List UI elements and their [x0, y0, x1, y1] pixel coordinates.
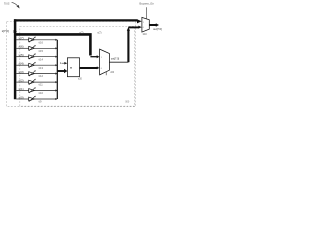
up arrowhead [127, 27, 130, 31]
wire: mux U2 output [109, 61, 128, 63]
wire: collecting vertical bus [56, 40, 58, 99]
wire [34, 47, 55, 49]
delay buffer D3 [29, 72, 35, 76]
svg-text:x(7): x(7) [79, 31, 83, 34]
svg-text:x(1): x(1) [19, 87, 24, 91]
svg-text:out[7:0]: out[7:0] [153, 27, 162, 31]
delay row 4 : x(4) [16, 62, 57, 70]
wire [34, 73, 55, 75]
arrowhead into bypass mux input 1 [137, 19, 142, 23]
svg-text:x(7): x(7) [19, 36, 24, 40]
delay buffer D7 [29, 38, 35, 42]
delay buffer D2 [29, 80, 35, 84]
delay row 6 : x(2) [16, 78, 57, 86]
bypass mux U3 [142, 17, 149, 32]
svg-text:x(3): x(3) [19, 70, 24, 74]
wire: riser to bypass mux [127, 30, 129, 63]
wire [16, 56, 29, 58]
svg-text:t/11: t/11 [39, 83, 44, 87]
wire [62, 62, 65, 64]
outer dashed box [7, 21, 136, 106]
mux U2 [100, 49, 110, 75]
delay row 3 : x(5) [16, 53, 57, 61]
wire: final output [149, 24, 156, 26]
wire: thick arrow into register U1 [57, 70, 64, 72]
svg-text:x(0): x(0) [19, 95, 24, 99]
wire: horizontal undelayed bus [15, 34, 90, 55]
svg-text:x[7:0]: x[7:0] [2, 29, 9, 33]
svg-text:out[7:0]: out[7:0] [111, 57, 120, 60]
svg-text:x(2): x(2) [19, 78, 24, 82]
svg-text:t/13: t/13 [39, 66, 44, 70]
arrowhead entering delay block [14, 30, 17, 33]
delay buffer D6 [29, 46, 35, 50]
wire [34, 39, 55, 41]
delay row 8 : x(0) [16, 95, 57, 103]
delay row 2 : x(6) [16, 45, 57, 53]
wire [34, 64, 55, 66]
delay buffer D5 [29, 55, 35, 59]
svg-text:t/12: t/12 [39, 74, 44, 78]
wire: U1 output [80, 67, 98, 69]
mux U2 select stub [105, 72, 107, 75]
wire [16, 47, 29, 49]
svg-text:t/15: t/15 [39, 49, 44, 53]
wire [34, 98, 55, 100]
wire: top bypass bus [14, 19, 137, 21]
svg-text:t/10: t/10 [39, 91, 44, 95]
wire: delayed output into bypass mux [128, 26, 138, 28]
wire [16, 39, 29, 41]
svg-text:x20: x20 [78, 77, 83, 80]
svg-text:bus: bus [4, 1, 10, 5]
svg-text:t/16: t/16 [39, 40, 44, 44]
plus mark inside U1 [70, 67, 72, 69]
delay row 1 : x(7) [16, 36, 57, 44]
wire [16, 98, 29, 100]
delay row 7 : x(1) [16, 87, 57, 95]
svg-text:x(4): x(4) [19, 62, 24, 66]
delay buffer D1 [29, 89, 35, 93]
svg-text:000: 000 [125, 100, 130, 103]
Bypass_En select wire [145, 7, 147, 19]
svg-text:x(7): x(7) [97, 31, 101, 34]
delay buffer D0 [29, 97, 35, 101]
inner dashed box (delay-line block) [20, 26, 135, 106]
wire [16, 81, 29, 83]
delay buffer D4 [29, 63, 35, 67]
svg-text:t/14: t/14 [39, 57, 44, 61]
svg-text:b40: b40 [143, 33, 148, 36]
wire: stub into mux U2 input 1 [90, 56, 97, 58]
wire [16, 73, 29, 75]
svg-text:x(5): x(5) [19, 53, 24, 57]
bus annotation arrow [12, 2, 18, 6]
wire [34, 56, 55, 58]
wire: left vertical input bus [14, 19, 17, 99]
register U1 [67, 58, 79, 77]
wire [16, 90, 29, 92]
delay row 5 : x(3) [16, 70, 57, 78]
svg-text:Bypass_En: Bypass_En [139, 2, 154, 6]
wire [34, 90, 55, 92]
svg-text:x(6): x(6) [19, 45, 24, 49]
svg-text:x00: x00 [110, 71, 115, 74]
wire [16, 64, 29, 66]
wire [34, 81, 55, 83]
